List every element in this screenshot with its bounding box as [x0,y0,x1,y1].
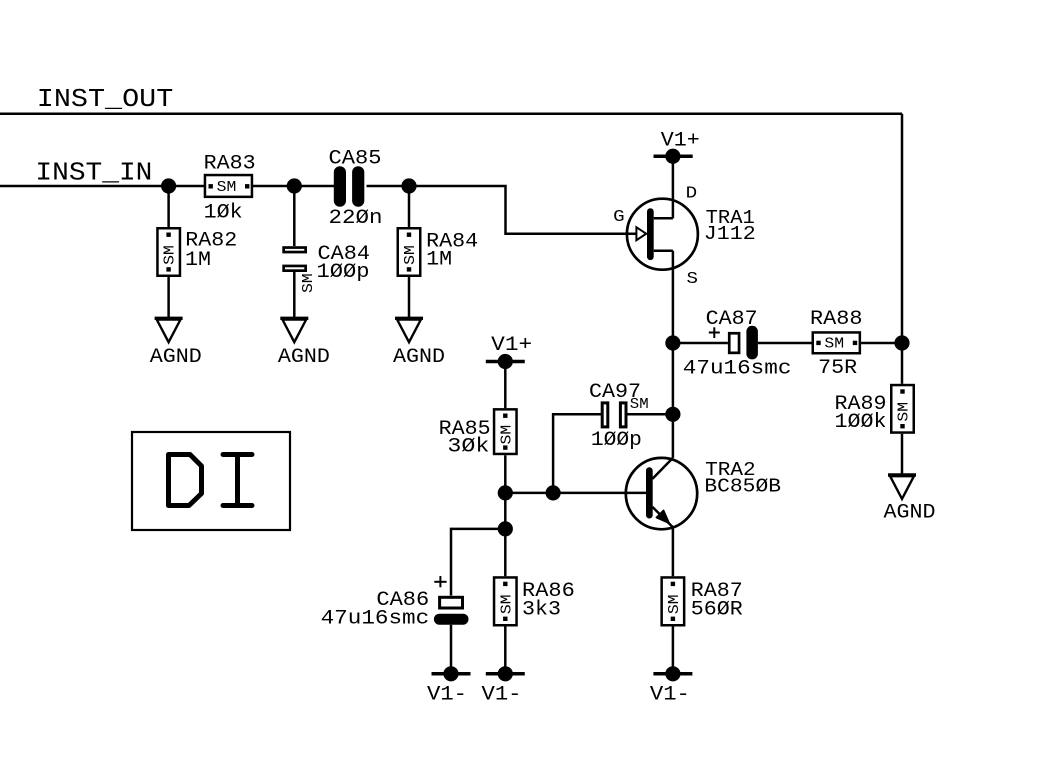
svg-text:V1-: V1- [427,684,467,707]
node S (TRA1 source / CA87 / collector branch) [665,335,680,350]
wire RA82 to AGND [167,277,170,318]
wire CA85 to node C [367,185,410,188]
transistor TRA1 (JFET J112) [613,184,756,343]
wire V1+ to RA85 [504,362,507,409]
svg-text:G: G [613,208,625,227]
wire RA87 to V1- [672,627,675,674]
resistor RA84 [398,228,478,276]
capacitor CA87 [683,308,792,380]
svg-text:SM: SM [301,273,317,293]
wire INST_OUT vertical drop to output node [901,114,904,343]
svg-text:22Øn: 22Øn [329,207,383,230]
transistor TRA2 (BC850B) [626,458,781,529]
svg-text:47u16smc: 47u16smc [321,608,430,631]
ground AGND (left) [150,318,202,369]
resistor RA85 [439,409,517,458]
capacitor CA97 [589,381,649,452]
wire RA85 to base node [504,455,507,493]
svg-text:1ØØp: 1ØØp [317,261,370,284]
capacitor CA86 [321,576,469,631]
node OUT (RA88 / RA89 / INST_OUT) [894,335,909,350]
svg-text:S: S [687,270,699,289]
resistor RA86 [494,577,575,625]
svg-text:1ØØp: 1ØØp [591,429,642,452]
svg-text:V1+: V1+ [491,334,532,357]
svg-text:1Øk: 1Øk [204,201,243,224]
wire RA84 to AGND [408,277,411,318]
ground AGND (middle) [278,318,330,369]
svg-text:SM: SM [824,337,844,353]
node C (CA85 / RA84 / gate) [401,178,416,193]
capacitor CA85 [329,148,383,230]
node B (RA83 / CA84 / CA85) [287,178,302,193]
wire S node to CA87 [673,342,728,345]
svg-text:75R: 75R [818,357,857,380]
ground AGND (right) [884,475,936,525]
resistor RA82 [157,228,237,276]
power V1- (under RA86) [482,666,525,706]
wire RA83 to node B [253,185,294,188]
svg-text:V1+: V1+ [661,129,700,152]
node G2 (CA86 branch) [498,521,513,536]
node E (RA85 / base / CA86 branch) [498,485,513,500]
power V1- (under RA87) [650,666,693,706]
wire RA89 to AGND [901,434,904,475]
wire RA88 to output node [861,342,902,345]
svg-text:RA83: RA83 [204,152,256,175]
wire output node down to RA89 [901,343,904,384]
svg-text:1ØØk: 1ØØk [835,411,887,434]
svg-text:SM: SM [499,425,515,445]
svg-text:47u16smc: 47u16smc [683,357,792,380]
svg-text:D: D [686,184,698,203]
wire emitter down [672,527,675,576]
svg-text:SM: SM [163,245,179,265]
svg-text:V1-: V1- [482,684,522,707]
svg-text:3k3: 3k3 [522,599,561,622]
wire node G2 left to CA86 [451,529,505,596]
svg-text:SM: SM [403,245,419,265]
svg-text:CA85: CA85 [329,148,382,171]
wire CA86 to V1- [450,625,453,674]
frame DI logo box [132,432,290,530]
wire base [505,492,646,495]
svg-text:SM: SM [897,402,913,422]
ground AGND (right of input row) [393,318,445,369]
resistor RA87 [662,577,743,625]
node F (CA97 left branch on base wire) [546,485,561,500]
wire node E down [504,493,507,529]
svg-text:AGND: AGND [884,502,936,525]
svg-text:SM: SM [217,180,237,196]
svg-text:1M: 1M [426,249,452,272]
resistor RA89 [835,385,914,434]
capacitor CA84 [284,243,370,293]
wire CA97 left branch up [553,414,601,493]
svg-text:INST_OUT: INST_OUT [37,84,174,114]
svg-text:SM: SM [499,594,515,614]
power V1+ (above TRA1) [654,129,700,163]
svg-text:V1-: V1- [650,684,690,707]
svg-text:SM: SM [630,397,649,413]
svg-text:AGND: AGND [393,346,445,369]
svg-text:BC85ØB: BC85ØB [704,476,781,498]
wire collector vertical [672,414,675,458]
svg-text:INST_IN: INST_IN [35,158,152,188]
wire CA87 to RA88 [758,342,812,345]
resistor RA88 [810,308,863,380]
svg-text:1M: 1M [185,249,211,272]
svg-text:AGND: AGND [150,346,202,369]
svg-text:RA88: RA88 [810,308,863,331]
power V1- (under CA86) [427,666,471,706]
svg-text:J112: J112 [704,223,756,245]
node A (INST_IN / RA82 / RA83) [161,178,176,193]
svg-text:56ØR: 56ØR [691,599,743,622]
wire node A down [167,186,170,227]
wire node G2 down to RA86 [504,529,507,576]
svg-text:3Øk: 3Øk [447,436,489,459]
resistor RA83 [204,152,256,224]
wire CA84 to AGND [293,272,296,318]
power V1+ (above RA85) [486,334,532,369]
wire S node down to CA97 node [672,343,675,414]
svg-text:SM: SM [667,594,683,614]
wire INST_OUT horizontal [0,112,902,115]
wire V1+ to TRA1 drain [672,156,675,218]
wire CA97 right to node D2 [627,413,673,416]
node D2 (CA97 right / TRA2 collector) [665,407,680,422]
svg-text:AGND: AGND [278,346,330,369]
wire node B down [293,186,296,246]
wire node C down [408,186,411,227]
wire node B to CA85 [294,185,334,188]
wire INST_IN horizontal [0,185,204,188]
wire node C to gate bend [409,186,637,234]
wire RA86 to V1- [504,627,507,674]
